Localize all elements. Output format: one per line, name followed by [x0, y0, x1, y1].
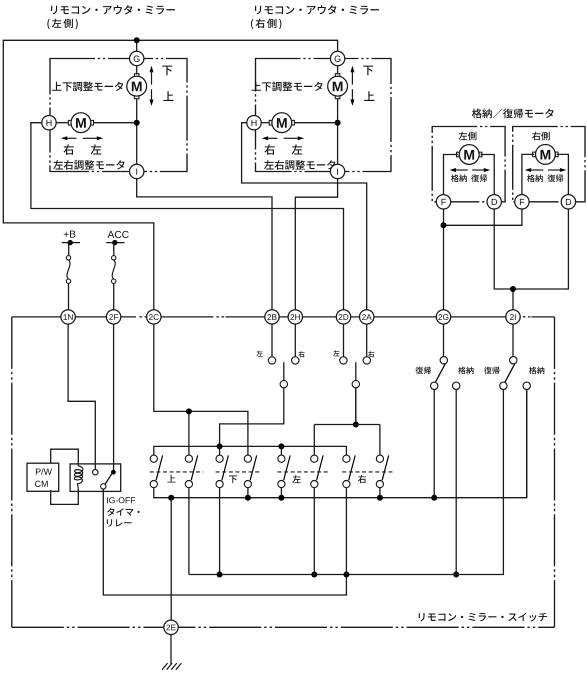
junction bottom bus / fukki-1: [431, 495, 437, 501]
wire P/W CM top link to relay coil: [51, 449, 79, 466]
wire top rail from G-junction to right mirror G and down-left to 2C: [3, 40, 337, 310]
label P/W: [36, 468, 52, 475]
terminal I (left mirror): [130, 164, 144, 178]
enclosure: remote mirror switch left border: [11, 317, 13, 627]
wire M6 right terminal to D: [557, 154, 569, 195]
contact migi (2H): [292, 357, 299, 364]
motor M6 terminal left: [533, 152, 536, 157]
label fukki (return) left box: [471, 174, 487, 182]
motor M3 terminal bottom: [335, 96, 340, 99]
arrow up (ue) right unit: [350, 66, 354, 72]
wire 2B to contact: [271, 324, 273, 357]
label taima: [107, 508, 140, 516]
wire 2E to ground: [170, 635, 172, 664]
motor M1 terminal bottom: [134, 96, 139, 99]
wire bus stub sw5: [280, 446, 282, 455]
junction lower bus / sw7 / relay link: [343, 572, 349, 578]
contact kakunou-1: [453, 382, 460, 389]
power tap +B: [62, 242, 80, 244]
pole link 1: [283, 362, 285, 380]
switch sw4 down-R contacts: [244, 455, 251, 462]
junction bottom bus / 2E feed: [168, 495, 174, 501]
label +B: [64, 231, 76, 238]
junction bottom bus / sw8: [377, 495, 383, 501]
wire pole2 to sw6/sw8: [355, 388, 357, 425]
label: remote outer mirror (left) title: [51, 5, 175, 14]
wire 2A to contact: [366, 324, 368, 357]
wire G to motor M3: [337, 65, 339, 74]
arrow left right-unit: [262, 136, 268, 140]
connector 2A: [360, 310, 374, 324]
label: up-down adjust motor (right): [251, 82, 322, 92]
label hidari small 1: [256, 350, 262, 356]
connector 2E: [164, 620, 178, 634]
wire F2 join to F1 feed: [444, 209, 522, 226]
label ACC: [108, 231, 129, 238]
junction bottom bus / sw5: [278, 495, 284, 501]
wire kakunou-2 to bottom bus end: [526, 390, 528, 498]
label: left-right adjust motor (right): [264, 160, 335, 170]
wire lower bus: [189, 390, 504, 575]
switch sw2 up-R blade: [191, 455, 198, 480]
wire sw2 bottom to lower bus: [188, 488, 190, 575]
junction top bus / sw5: [278, 443, 284, 449]
motor M3 (up-down, right mirror): [328, 76, 348, 96]
row break marks: [140, 316, 531, 318]
label hidari sw: [292, 475, 300, 483]
switch sw3 down-L contacts: [216, 455, 223, 462]
junction D-join: [510, 286, 516, 292]
label kakunou-2: [529, 367, 544, 374]
mech link dashes pair ue: [150, 471, 203, 473]
relay blade: [105, 474, 112, 485]
pole contact retract-2: [510, 357, 517, 364]
wire kakunou-1 to lower bus: [455, 390, 457, 575]
wire M2 to junction: [94, 122, 137, 124]
label fukki right box: [547, 174, 563, 182]
connector 2D: [336, 310, 350, 324]
enclosure: retract motor left: [432, 127, 505, 202]
wire bus stub sw3: [219, 446, 221, 455]
arrow down (shita) right unit: [350, 100, 354, 106]
pole contact 1: [280, 380, 287, 387]
terminal H (right mirror): [247, 116, 261, 130]
label rire-: [107, 519, 132, 526]
junction pole2 feed: [353, 422, 359, 428]
label: remote mirror switch: [419, 613, 547, 622]
connector 2F: [106, 310, 120, 324]
label kakunou right box: [527, 174, 543, 182]
switch sw7 right-L blade: [349, 455, 356, 480]
label: retract/return motor title: [472, 109, 554, 119]
wire sw5 bottom stub: [280, 488, 282, 498]
label: up-down adjust motor (left): [52, 82, 123, 92]
label migi right-unit: [264, 144, 274, 154]
wire fuse to 1N: [68, 283, 70, 309]
label fukki-1: [415, 367, 430, 374]
label ue (up): [163, 91, 173, 101]
label CM: [35, 481, 48, 487]
junction kakunou-1/lower bus: [453, 572, 459, 578]
wire 1N to relay fixed contact: [68, 324, 95, 470]
wire 2D to contact: [343, 324, 345, 357]
switch sw8 right-R blade: [382, 455, 389, 480]
label hidari (left): [91, 144, 101, 154]
wire F1 down to connector 2G: [443, 209, 445, 310]
label left-side (hidari-gawa): [459, 132, 477, 141]
wire M1 to junction to terminal I: [136, 99, 138, 165]
wire G to motor M1: [136, 65, 138, 74]
terminal I (right mirror): [330, 164, 344, 178]
wire D-join down to connector 2I: [512, 289, 514, 310]
label migi small 2: [368, 351, 374, 357]
blade retract-2: [505, 364, 515, 382]
blade retract-1: [436, 364, 446, 382]
contact kakunou-2: [523, 382, 530, 389]
terminal F (left retract): [436, 195, 450, 209]
wire sw8 bottom stub: [379, 488, 381, 498]
wire relay moving contact to lower link: [103, 489, 346, 595]
arrow right (hidari dir): [97, 136, 103, 140]
connector 2G: [436, 310, 450, 324]
wire P/W CM bottom link to relay coil: [51, 489, 79, 504]
junction lower bus / sw3: [217, 572, 223, 578]
enclosure: remote mirror switch bottom border: [12, 626, 555, 628]
wire crossbar to sw6: [313, 425, 315, 456]
junction M3/M4 node: [335, 120, 341, 126]
wire right-H to connector 2A: [242, 123, 367, 310]
component box P/W CM: [27, 463, 59, 491]
enclosure: retract motor right: [513, 127, 585, 202]
motor M6 (retract right): [536, 145, 556, 165]
mech link dashes pair hidari: [278, 471, 329, 473]
motor M6 terminal right: [555, 152, 558, 157]
wire +B to fuse: [68, 242, 70, 255]
arrow retract-right: [525, 168, 531, 172]
switch sw2 up-R contacts: [185, 455, 192, 462]
junction feed/sw2: [186, 408, 192, 414]
wire pole1 to switch bus: [220, 388, 284, 447]
junction F-join: [441, 222, 447, 228]
switch sw8 right-R contacts: [376, 455, 383, 462]
label: remote outer mirror (right) title: [255, 5, 379, 14]
wire 2I to pole: [512, 324, 514, 357]
label fukki-2: [484, 367, 499, 374]
label shita (down): [162, 66, 172, 76]
wire sw6 bottom to lower bus: [313, 488, 315, 575]
label IG-OFF: [107, 497, 135, 503]
motor M5 terminal right: [479, 152, 482, 157]
wire 2E feed: [170, 498, 172, 620]
wire M3 to junction to terminal I: [337, 99, 339, 165]
switch sw6 left-R blade: [317, 455, 324, 480]
enclosure: remote mirror switch right border: [554, 317, 556, 627]
wire M5 left terminal to F: [444, 155, 458, 195]
fuse F+B: [66, 256, 70, 260]
ground: [162, 663, 181, 670]
label shita (down) right unit: [363, 66, 373, 76]
label hidari small 2: [333, 350, 339, 356]
wire sw3 bottom to lower bus: [219, 488, 221, 575]
wire M4 to junction: [294, 122, 337, 124]
terminal D (left retract): [487, 195, 501, 209]
pole link 2: [355, 362, 357, 380]
wire fukki-1 to bottom bus: [433, 390, 435, 498]
wire 2H to contact: [294, 324, 296, 357]
wire H to motor M4: [261, 122, 269, 124]
mech link dashes pair migi: [342, 471, 392, 473]
junction lower bus / sw6: [311, 572, 317, 578]
enclosure: remote outer mirror left unit: [50, 59, 187, 172]
wire 2G to pole: [443, 324, 445, 357]
wire switch top bus: [154, 446, 347, 455]
motor M5 terminal left: [457, 152, 460, 157]
label ue sw: [167, 475, 175, 483]
enclosure: remote outer mirror right unit: [256, 59, 392, 172]
wire H to motor M2: [56, 122, 68, 124]
junction top-rail/left-G: [134, 37, 140, 43]
wire right-I to connector 2H: [295, 178, 337, 309]
relay fixed contact: [93, 470, 98, 475]
arrow right right-unit: [298, 136, 304, 140]
relay pivot: [111, 470, 116, 475]
switch sw1 up-L blade: [156, 455, 163, 480]
motor M4 terminal right: [292, 120, 295, 125]
arrow left (migi dir): [61, 136, 67, 140]
label: left-right adjust motor (left): [53, 160, 124, 170]
component box IG-OFF timer relay: [70, 464, 121, 492]
contact fukki-2: [500, 382, 507, 389]
wire sw7 bottom to lower bus: [345, 488, 347, 575]
connector 1N: [61, 310, 75, 324]
wire connector row line: [12, 316, 555, 318]
label ue (up) right unit: [364, 91, 374, 101]
wire left-I to connector 2B: [137, 178, 272, 309]
contact migi (2A): [363, 357, 370, 364]
contact fukki-1: [431, 382, 438, 389]
wire sw4 bottom stub: [247, 488, 249, 498]
contact hidari (2D): [340, 357, 347, 364]
switch sw1 up-L contacts: [150, 455, 157, 462]
label migi (right): [63, 144, 73, 154]
connector 2I: [506, 310, 520, 324]
switch sw7 right-L contacts: [343, 455, 350, 462]
wire 2F to relay pivot: [113, 324, 115, 470]
motor M3 terminal top: [335, 74, 340, 77]
wire M6 left terminal to F: [522, 154, 534, 195]
terminal G (left mirror): [130, 51, 144, 65]
motor M1 (up-down, left mirror): [127, 76, 147, 96]
motor M1 terminal top: [134, 74, 139, 77]
motor M5 (retract left): [459, 145, 479, 165]
switch sw3 down-L blade: [222, 455, 229, 480]
wire ACC to fuse: [113, 242, 115, 255]
wire crossbar to sw8: [379, 425, 381, 456]
label kakunou-1: [458, 367, 473, 374]
motor M2 terminal right: [91, 120, 94, 125]
switch sw4 down-R blade: [250, 455, 257, 480]
connector 2B: [265, 310, 279, 324]
label migi small 1: [298, 351, 304, 357]
motor M2 terminal left: [68, 120, 71, 125]
arrow up (ue): [150, 66, 154, 72]
arrow down (shita): [150, 100, 154, 106]
junction top bus / sw3: [217, 443, 223, 449]
fuse FACC: [112, 256, 116, 260]
wire fuse to 2F: [113, 283, 115, 309]
power tap ACC: [106, 242, 124, 244]
pole contact retract-1: [440, 357, 447, 364]
wire switch bottom bus: [154, 390, 527, 498]
junction bottom bus / sw4: [245, 495, 251, 501]
label hidari right-unit: [292, 144, 302, 154]
wire M5 right terminal to D: [481, 155, 495, 195]
motor M4 (left-right, right mirror): [272, 113, 292, 133]
mech link dashes pair shita: [216, 471, 262, 473]
junction M1/M2 node: [134, 120, 140, 126]
wire 2C to sw2/sw4 feed line: [154, 324, 248, 455]
wire D1/D2 join: [494, 209, 568, 289]
terminal D (right retract): [561, 195, 575, 209]
wire pole2 crossbar: [314, 424, 380, 426]
connector 2C: [147, 310, 161, 324]
contact hidari (2B): [268, 357, 275, 364]
label kakunou (retract) left box: [451, 174, 467, 182]
terminal F (right retract): [515, 195, 529, 209]
terminal H (left mirror): [42, 116, 56, 130]
arrow return-left: [484, 168, 490, 172]
terminal G (right mirror): [330, 51, 344, 65]
wire stub rail to left G: [136, 40, 138, 52]
relay moving contact: [101, 484, 106, 489]
arrow retract-left: [450, 168, 456, 172]
arrow return-right: [560, 168, 566, 172]
relay coil: [74, 466, 83, 489]
label shita sw: [229, 475, 237, 483]
pole contact 2: [352, 380, 359, 387]
motor M2 (left-right, left mirror): [71, 113, 91, 133]
switch sw6 left-R contacts: [311, 455, 318, 462]
wire feed to sw2: [188, 411, 190, 455]
connector 2H: [288, 310, 302, 324]
switch sw5 left-L blade: [284, 455, 291, 480]
motor M4 terminal left: [269, 120, 272, 125]
label migi sw: [358, 475, 366, 483]
label right-side (migi-gawa): [532, 132, 550, 141]
wire left-H to connector 2D: [31, 123, 344, 310]
switch sw5 left-L contacts: [278, 455, 285, 462]
